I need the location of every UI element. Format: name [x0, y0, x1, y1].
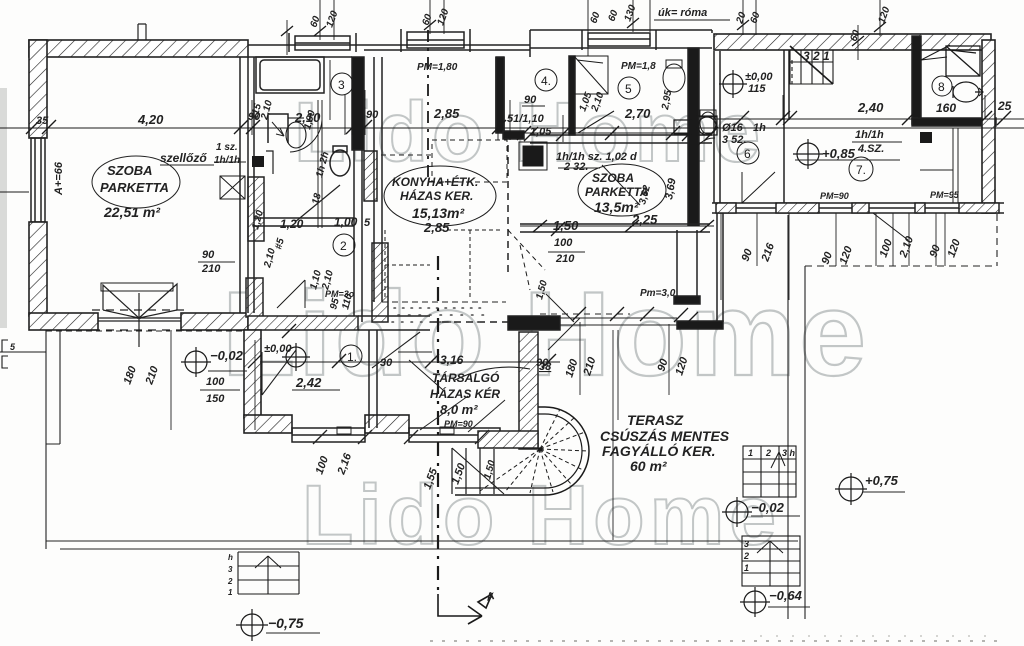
svg-text:2: 2: [743, 551, 749, 561]
svg-text:15,13m²: 15,13m²: [412, 205, 464, 221]
svg-text:PM=1,8: PM=1,8: [621, 61, 656, 72]
elevation marker -0,75: [236, 609, 304, 641]
room circle 1: [340, 345, 362, 367]
fixtures: wc room8: [953, 82, 983, 102]
svg-text:PARKETTA: PARKETTA: [100, 180, 169, 195]
svg-text:1,00: 1,00: [334, 215, 358, 229]
window top 3 room5: [582, 30, 656, 50]
hall south wall thin lines with dashes: [560, 318, 677, 325]
svg-text:2,85: 2,85: [423, 220, 450, 235]
wall left upper segment: [29, 40, 47, 138]
dimension extension verticals top row: [240, 90, 985, 142]
svg-text:115: 115: [748, 83, 766, 95]
pier right of left room low: [246, 278, 263, 317]
elevation marker +0,75 right: [835, 473, 899, 505]
svg-text:210: 210: [555, 253, 575, 265]
window lower 2: [409, 428, 500, 442]
terrace left boundary: [46, 330, 60, 549]
window bottom right 1: [736, 207, 776, 209]
svg-text:PM=3o: PM=3o: [325, 289, 355, 299]
svg-text:2 32.: 2 32.: [563, 161, 588, 173]
label szoba 135: [578, 164, 666, 216]
fixtures: flue room8: [920, 132, 932, 143]
underline 90 room4: [522, 105, 545, 107]
svg-text:100: 100: [206, 376, 225, 388]
fixtures: shower room5: [574, 56, 608, 94]
wall top of left room: [29, 40, 248, 57]
svg-text:±0,00: ±0,00: [745, 71, 773, 83]
door swing room8: [921, 45, 950, 60]
svg-text:PM=1,80: PM=1,80: [417, 62, 458, 73]
svg-text:szellőző: szellőző: [160, 151, 207, 165]
svg-text:25: 25: [997, 99, 1012, 113]
svg-text:3: 3: [228, 565, 233, 574]
svg-text:−0,02: −0,02: [210, 348, 244, 363]
top wall room5 band: [530, 30, 712, 57]
svg-text:3 h: 3 h: [782, 448, 796, 458]
door swing room7 bottom: [873, 213, 908, 240]
window lower 1: [292, 428, 365, 442]
door swing room1 entry: [262, 350, 296, 395]
rotated small dims room4: [577, 89, 674, 114]
fixtures: wc room6: [700, 110, 716, 134]
svg-text:5: 5: [364, 217, 371, 229]
room circle 6: [737, 142, 759, 164]
svg-text:5: 5: [625, 82, 632, 96]
door swing room6: [742, 172, 775, 203]
right block top wall: [714, 34, 991, 50]
svg-text:100: 100: [554, 237, 573, 249]
wall under room8: [912, 118, 996, 126]
svg-text:1h/1h: 1h/1h: [214, 155, 240, 166]
top spike extension lines: [281, 0, 886, 60]
svg-text:PM=90: PM=90: [820, 191, 849, 201]
door swing bath3: [290, 120, 322, 152]
room1 entry swing diagonal: [372, 332, 530, 380]
svg-text:1 sz.: 1 sz.: [216, 142, 238, 153]
svg-text:3: 3: [744, 539, 749, 549]
duct wall below szoba135: [677, 230, 697, 298]
hall interior partition: [318, 100, 322, 228]
lower block left wall: [244, 330, 261, 418]
window top 1: [289, 33, 356, 52]
svg-text:90: 90: [366, 109, 379, 121]
svg-text:8: 8: [938, 80, 945, 94]
wall bottom of left room east pier: [181, 313, 248, 330]
kitchen fixtures dashes: [385, 230, 500, 300]
bathroom3 outline: [248, 57, 254, 313]
wall hall-kitchen thick: [352, 57, 364, 150]
axis arrow bottom: [438, 594, 492, 624]
dashed line right of block: [805, 214, 997, 266]
label konyha: [384, 166, 496, 235]
spiral stair wall horizontal: [478, 431, 538, 448]
door swing room4 to 5: [578, 111, 614, 133]
pier right of left room mid: [248, 177, 264, 241]
window bottom right 4: [925, 207, 959, 209]
dash-dot axis vertical center: [437, 256, 439, 594]
tarsalgo door arc: [409, 360, 443, 390]
door swing room2 to hall: [277, 280, 305, 308]
svg-text:2,70: 2,70: [624, 106, 651, 121]
radiator marks lower windows: [337, 427, 454, 434]
svg-text:PM=95: PM=95: [930, 190, 960, 200]
fixtures: basin room5: [697, 116, 717, 135]
misc dimension texts: [201, 61, 960, 405]
room circle 5: [618, 77, 640, 99]
svg-text:−0,64: −0,64: [769, 588, 803, 603]
right block bottom wall: [712, 203, 1004, 213]
hall door leaf box: [268, 114, 288, 143]
door french doors in bottom wall: [92, 284, 186, 347]
svg-text:90: 90: [524, 94, 537, 106]
svg-text:4.SZ.: 4.SZ.: [857, 143, 884, 155]
svg-text:Ø16: Ø16: [722, 122, 744, 134]
svg-text:4.: 4.: [541, 74, 551, 88]
svg-text:150: 150: [206, 393, 225, 405]
top wall kitchen band: [248, 45, 530, 57]
bathtub room3: [260, 60, 320, 90]
main dimension line top: [0, 128, 1024, 352]
svg-text:2,42: 2,42: [295, 375, 322, 390]
terrace right boundary: [788, 215, 805, 619]
fixtures: wc room5: [663, 60, 685, 92]
window bottom right 2: [819, 207, 852, 209]
dim extension lower left: [170, 332, 172, 430]
wall bottom of left room west pier: [29, 313, 98, 330]
fixtures: stove kitchen: [519, 142, 547, 170]
spiral stair wall vertical: [519, 332, 538, 449]
svg-text:2: 2: [227, 577, 233, 586]
scan speckle bottom: [430, 640, 1005, 642]
svg-text:1: 1: [228, 588, 233, 597]
kitchen left wall line: [374, 57, 382, 302]
svg-text:KONYHA+ÉTK.: KONYHA+ÉTK.: [392, 174, 478, 189]
wall right of left room line: [239, 57, 241, 313]
fixtures: shower room8: [946, 46, 980, 76]
svg-text:+0,75: +0,75: [865, 473, 899, 488]
bath5 divider to szoba: [530, 135, 712, 143]
right outer wall: [982, 40, 995, 213]
svg-text:60 m²: 60 m²: [630, 458, 667, 474]
terrace bottom boundary: [46, 541, 798, 549]
vertical dim texts middle column: [249, 99, 653, 481]
svg-text:A+=66: A+=66: [53, 161, 65, 196]
kitchen right wall: [496, 57, 504, 133]
svg-text:2: 2: [340, 239, 347, 253]
svg-text:4,20: 4,20: [137, 112, 164, 127]
svg-text:TERASZ: TERASZ: [627, 412, 683, 428]
wc bath3: [286, 118, 306, 148]
elevation marker pm00 room1: [264, 343, 310, 371]
wc bathroom3: [330, 150, 350, 176]
hall south wall black: [677, 321, 723, 329]
dim vertical ticks lower middle: [255, 322, 669, 540]
label tarsalgo: [430, 370, 500, 429]
svg-text:3: 3: [338, 78, 345, 92]
bath5 left wall: [569, 56, 575, 135]
svg-text:210: 210: [201, 263, 221, 275]
stairs terrace upper right: [743, 446, 796, 497]
svg-text:2,85: 2,85: [433, 106, 460, 121]
fixtures: flue square hall: [252, 156, 264, 167]
svg-text:2,25: 2,25: [631, 212, 658, 227]
svg-text:1,05: 1,05: [530, 126, 552, 138]
svg-text:FAGYÁLLÓ KER.: FAGYÁLLÓ KER.: [602, 442, 716, 459]
room circle 8: [932, 76, 952, 96]
label terasz: [600, 412, 730, 474]
room circle 2: [333, 234, 355, 256]
svg-text:1h/1h: 1h/1h: [855, 129, 884, 141]
svg-text:1.: 1.: [347, 350, 357, 364]
radiator left room window: [101, 283, 173, 291]
kitchen wall lower jog hatched: [372, 243, 388, 322]
svg-text:38: 38: [539, 361, 552, 373]
dimension tick slashes top row: [26, 111, 1011, 141]
wall left lower segment: [29, 222, 47, 316]
svg-text:90: 90: [202, 249, 215, 261]
stairs top middle room7: [790, 46, 833, 84]
svg-text:2,40: 2,40: [857, 100, 884, 115]
window slashes lower wall: [313, 430, 489, 444]
svg-text:CSÚSZÁS MENTES: CSÚSZÁS MENTES: [600, 427, 730, 444]
wall room5-7: [688, 48, 699, 225]
rotated dimension texts: [53, 161, 963, 491]
second dim row y135 room5: [260, 119, 1010, 368]
fixtures: box with X left room: [220, 176, 245, 199]
counter dash to kitchen: [381, 154, 432, 156]
kitchen wall mid hatched: [364, 151, 377, 201]
closet lines room7 right: [920, 128, 958, 203]
flue bracket: [266, 151, 273, 174]
svg-text:7.: 7.: [856, 163, 866, 177]
svg-text:3,16: 3,16: [440, 353, 464, 367]
bath3 vertical dims: [330, 60, 345, 135]
window left wall: [31, 138, 45, 222]
svg-text:2: 2: [765, 448, 771, 458]
terrace top dashed: [46, 330, 244, 332]
svg-text:±0,00: ±0,00: [264, 343, 292, 355]
svg-text:SZOBA: SZOBA: [107, 163, 153, 178]
svg-text:HÁZAS KER.: HÁZAS KER.: [400, 188, 473, 203]
upper block bottom wall hall segment: [248, 316, 358, 330]
straight steps left of spiral: [452, 448, 494, 494]
window top 2 kitchen: [401, 29, 470, 52]
svg-text:6: 6: [744, 147, 751, 161]
dim extension lines below right block: [721, 213, 945, 300]
svg-text:−0,75: −0,75: [268, 615, 304, 631]
door swing kitchen dashes: [432, 140, 545, 290]
room1-tarsalgo divider: [369, 330, 377, 428]
svg-text:3 52.: 3 52.: [722, 134, 746, 146]
G box: [674, 120, 691, 134]
elevation marker -0,64: [740, 587, 803, 617]
spiral staircase: [452, 407, 589, 495]
kitchen-hall dashed wall: [507, 145, 509, 272]
lower block bottom wall pier 2: [365, 415, 409, 433]
svg-text:1,20: 1,20: [280, 217, 304, 231]
svg-text:1: 1: [748, 448, 753, 458]
left margin marks: [2, 340, 16, 368]
underlines and small extras: [160, 119, 1024, 633]
room circle 4: [535, 69, 557, 91]
svg-text:30: 30: [380, 357, 393, 369]
svg-text:−0,02: −0,02: [751, 500, 785, 515]
bathroom3 bottom wall: [254, 218, 354, 226]
elevation marker -0,02 bottom: [722, 497, 785, 527]
svg-text:Pm=3,0: Pm=3,0: [640, 288, 676, 299]
wall room6-7: [784, 50, 789, 203]
elevation marker -0,02 left: [181, 347, 244, 377]
bath3 door swing diagonal: [295, 185, 340, 222]
window bottom right 3: [869, 207, 915, 209]
room circle 7: [849, 157, 873, 181]
top spike dimension texts: [308, 3, 892, 43]
stairs terrace lower right: [742, 536, 800, 586]
stairs terrace bottom left: [227, 552, 299, 597]
svg-text:51/1,10: 51/1,10: [507, 113, 545, 125]
dotted texture strip kitchen bottom: [392, 308, 486, 322]
svg-text:úk= róma: úk= róma: [658, 7, 707, 19]
svg-text:TÁRSALGÓ: TÁRSALGÓ: [432, 370, 500, 385]
label szoba 22: [92, 156, 180, 220]
chimney above top wall: [138, 24, 146, 40]
svg-text:35: 35: [36, 115, 49, 127]
right block left wall: [714, 51, 720, 203]
slash ticks lower rows: [248, 111, 797, 368]
kitchen axis dash: [427, 30, 429, 180]
svg-text:22,51 m²: 22,51 m²: [103, 204, 160, 220]
corridor door arc: [693, 138, 715, 155]
wall room7-8: [912, 36, 921, 124]
lower block bottom wall pier 1: [244, 415, 292, 433]
elevation marker +0,85 room7: [793, 139, 856, 169]
dimension texts top row: [36, 94, 1012, 138]
svg-text:160: 160: [936, 101, 956, 115]
szoba135 bottom wall: [520, 224, 710, 232]
room circle 3: [331, 73, 353, 95]
svg-text:Lido Home: Lido Home: [302, 468, 781, 562]
svg-text:1: 1: [744, 563, 749, 573]
svg-text:h: h: [228, 553, 233, 562]
svg-text:8,0 m²: 8,0 m²: [440, 402, 478, 417]
svg-text:SZOBA: SZOBA: [592, 171, 634, 185]
svg-text:+0,85: +0,85: [822, 146, 856, 161]
door swings lower windows: [420, 396, 505, 432]
door swing szoba135: [602, 165, 640, 205]
elevation marker room6: [719, 70, 747, 98]
svg-text:1h: 1h: [753, 122, 766, 134]
svg-text:3 2 1: 3 2 1: [803, 49, 830, 63]
hall east wall to right block: [717, 213, 723, 322]
